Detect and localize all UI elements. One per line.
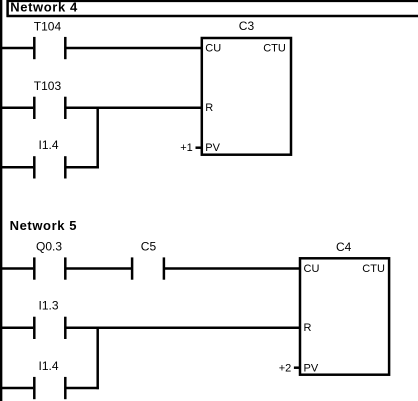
svg-text:CU: CU [304, 263, 320, 275]
svg-text:T104: T104 [34, 20, 62, 34]
wire T104 to C3 CU pin [66, 47, 201, 50]
wire I1.4 to junction (network 5) [66, 387, 99, 390]
contact I1.4 (network 4) [34, 156, 65, 178]
svg-text:C5: C5 [141, 240, 157, 254]
wire C5 to C4 CU pin [165, 267, 300, 270]
wire Q0.3 to C5 [66, 267, 131, 270]
contact T104 [34, 37, 65, 59]
contact I1.3 [34, 317, 65, 339]
PV tick (C4) [294, 366, 300, 369]
wire rung1 left (network 5) [0, 267, 33, 270]
wire rung1 left (network 4) [0, 47, 33, 50]
svg-text:+1: +1 [180, 142, 193, 154]
svg-text:C4: C4 [336, 240, 352, 254]
wire I1.4 to junction (network 4) [66, 166, 99, 169]
counter C4 box [300, 258, 389, 374]
svg-text:CTU: CTU [362, 263, 385, 275]
svg-text:R: R [304, 322, 312, 334]
svg-text:CTU: CTU [263, 42, 286, 54]
junction vertical (network 4) [96, 107, 99, 169]
wire rung3 left (network 4) [0, 166, 33, 169]
wire rung2 left (network 4) [0, 107, 33, 110]
svg-text:+2: +2 [279, 362, 292, 374]
contact Q0.3 [34, 257, 65, 279]
svg-text:R: R [205, 102, 213, 114]
svg-text:Network 4: Network 4 [10, 0, 78, 14]
svg-text:Network 5: Network 5 [10, 218, 78, 233]
contact C5 [132, 257, 164, 279]
svg-text:C3: C3 [239, 19, 255, 33]
network 4 title box [7, 1, 418, 17]
junction vertical (network 5) [96, 327, 99, 390]
svg-text:I1.3: I1.3 [39, 299, 59, 313]
wire rung3 left (network 5) [0, 387, 33, 390]
svg-text:PV: PV [304, 362, 319, 374]
svg-text:Q0.3: Q0.3 [36, 240, 62, 254]
svg-text:T103: T103 [34, 79, 62, 93]
counter C3 box [202, 38, 291, 155]
left power rail [0, 0, 2, 401]
svg-text:PV: PV [205, 142, 220, 154]
contact T103 [34, 97, 65, 119]
wire rung2 left (network 5) [0, 327, 33, 330]
svg-text:CU: CU [205, 42, 221, 54]
svg-text:I1.4: I1.4 [39, 359, 59, 373]
wire T103 to C3 R pin [66, 107, 201, 110]
PV tick (C3) [196, 146, 202, 149]
wire I1.3 to C4 R pin [66, 327, 300, 330]
svg-text:I1.4: I1.4 [39, 138, 59, 152]
contact I1.4 (network 5) [34, 377, 65, 399]
